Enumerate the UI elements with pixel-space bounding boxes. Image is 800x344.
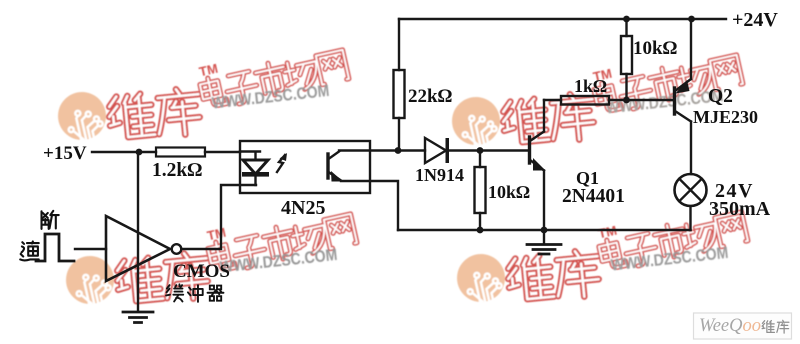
- svg-text:350mA: 350mA: [709, 198, 771, 220]
- svg-text:MJE230: MJE230: [693, 107, 758, 127]
- svg-text:10kΩ: 10kΩ: [488, 182, 530, 202]
- svg-text:1.2kΩ: 1.2kΩ: [152, 160, 202, 181]
- svg-text:+24V: +24V: [732, 9, 778, 31]
- svg-text:4N25: 4N25: [281, 197, 325, 219]
- svg-text:+15V: +15V: [43, 143, 87, 164]
- svg-text:WeeQoo: WeeQoo: [699, 315, 761, 336]
- svg-text:1N914: 1N914: [415, 165, 464, 185]
- svg-text:22kΩ: 22kΩ: [408, 86, 453, 107]
- svg-text:Q2: Q2: [708, 86, 733, 107]
- svg-text:CMOS: CMOS: [173, 261, 230, 282]
- svg-text:1kΩ: 1kΩ: [574, 76, 607, 96]
- svg-text:10kΩ: 10kΩ: [633, 38, 678, 59]
- svg-text:2N4401: 2N4401: [562, 186, 625, 207]
- svg-text:Q1: Q1: [576, 168, 599, 188]
